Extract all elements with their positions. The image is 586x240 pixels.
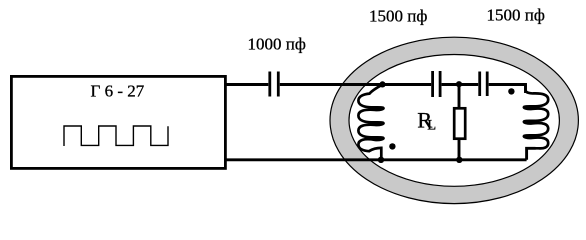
right coil bottom corner [527, 148, 536, 160]
polarity dot (left coil) [389, 143, 395, 149]
wire: node A to C2 [383, 83, 432, 86]
capacitor C1 1000 пф [270, 72, 279, 97]
generator box Г6-27 [11, 76, 225, 168]
svg-text:1500 пф: 1500 пф [369, 7, 427, 26]
svg-text:1000 пф: 1000 пф [248, 34, 306, 53]
svg-text:1500 пф: 1500 пф [487, 5, 545, 24]
polarity dot (right coil) [508, 88, 514, 94]
bottom-left junction dot [378, 157, 384, 163]
svg-text:Г 6 - 27: Г 6 - 27 [91, 81, 145, 100]
wire: C3 to right coil top corner [489, 85, 526, 94]
wire: C2 to node B [442, 83, 479, 86]
wire: box to C1 (top) [225, 83, 268, 86]
inductor L2 (right coil) [524, 85, 548, 149]
capacitor C3 1500 пф (right) [480, 72, 488, 97]
resistor RL body [454, 108, 465, 138]
node A junction dot (top left) [379, 81, 385, 87]
coupling ring (gray ellipse annulus) [330, 37, 578, 203]
bottom node junction dot [456, 157, 462, 163]
wire: C1 to node A (top) [280, 83, 383, 86]
capacitor C2 1500 пф (left) [433, 71, 441, 97]
square wave symbol [64, 126, 168, 146]
bottom wire: box to right coil corner [225, 158, 526, 161]
wire: RL to bottom wire [458, 139, 461, 160]
node B junction dot (top middle) [456, 81, 462, 87]
wire: node B down to RL [458, 85, 461, 109]
svg-text:L: L [427, 117, 436, 133]
inductor L1 (left coil) [358, 85, 383, 160]
